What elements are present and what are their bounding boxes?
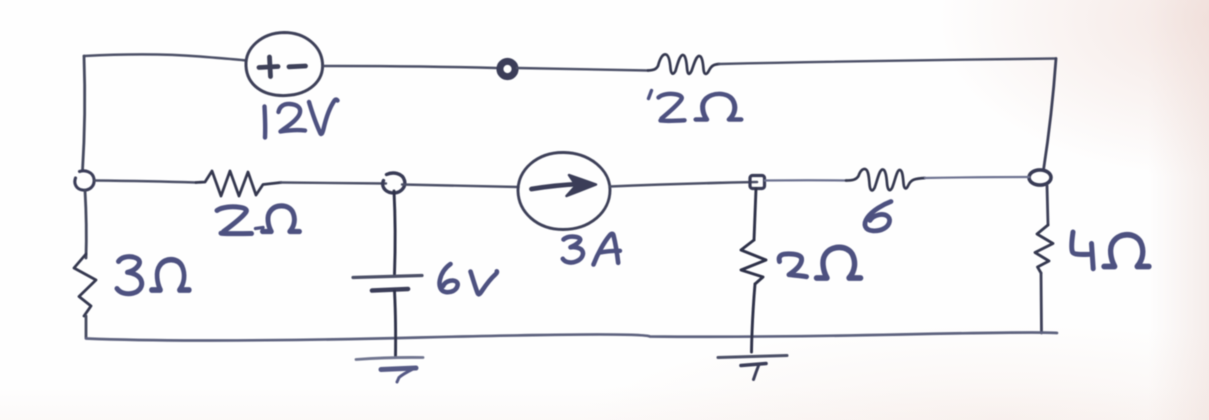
wire top node to resistor	[517, 68, 648, 71]
wire right vertical (top)	[1044, 59, 1057, 171]
wire node to 3ohm resistor	[85, 191, 86, 259]
wire resistor to top-right corner	[719, 59, 1056, 65]
label 12V	[265, 100, 338, 138]
wire left vertical (top)	[83, 56, 85, 171]
wire node to current source	[402, 185, 519, 188]
node battery top	[383, 173, 405, 193]
wire 3ohm to bottom-left corner	[85, 316, 88, 338]
label 4 ohm	[1072, 232, 1149, 269]
wire top rail left (corner to source)	[84, 54, 245, 60]
wire node to 4ohm resistor	[1047, 186, 1048, 226]
wire battery to bottom rail and below	[395, 291, 396, 357]
resistor 2 ohm (middle-left)	[196, 171, 281, 196]
wire current source to square node	[610, 182, 757, 187]
wire mid rail: node to 2ohm resistor	[95, 181, 197, 183]
wire resistor to battery node	[281, 183, 386, 184]
resistor 2 ohm (vertical)	[741, 240, 766, 284]
label 2 ohm (top)	[649, 91, 741, 121]
label 3A	[563, 234, 620, 265]
label 2 ohm (right branch)	[779, 247, 860, 278]
battery B1 plates	[353, 276, 422, 291]
label 6V	[440, 264, 497, 294]
node square	[750, 176, 765, 189]
wire source to top node	[324, 66, 496, 68]
bottom rail wire	[86, 333, 1057, 341]
wire 6 resistor to right node	[925, 177, 1029, 178]
node left middle	[75, 171, 94, 190]
resistor 2 ohm (top)	[648, 54, 719, 74]
ground (under 2 ohm branch)	[718, 356, 787, 380]
current source I1 3A	[518, 152, 610, 229]
resistor 3 ohm	[74, 254, 96, 316]
voltage source V1 12V	[246, 33, 323, 96]
wire battery branch top	[394, 191, 395, 274]
label 3 ohm	[117, 257, 189, 294]
label 6	[865, 202, 891, 231]
resistor 6 (middle-right)	[846, 169, 925, 190]
label 2 ohm (middle-left)	[217, 206, 299, 234]
wire square node to 6 resistor	[765, 179, 846, 181]
wire 4ohm to bottom rail	[1040, 273, 1043, 333]
node top (junction dot)	[500, 61, 515, 76]
ground (under battery)	[356, 357, 423, 382]
resistor 4 ohm	[1035, 225, 1053, 273]
node right middle	[1029, 170, 1051, 185]
wire 2ohm branch top	[754, 189, 756, 241]
wire 2ohm to bottom rail and below	[752, 284, 756, 352]
